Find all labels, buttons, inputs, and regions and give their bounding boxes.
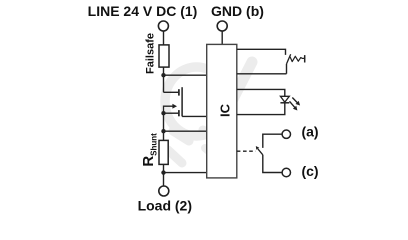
svg-text:RShunt: RShunt — [140, 133, 159, 167]
contact K1 blade — [256, 146, 263, 155]
node A junction dot — [161, 73, 165, 77]
LED D1 cathode bar — [280, 102, 289, 104]
switch S1 thermal squiggle — [290, 56, 304, 61]
svg-text:Failsafe: Failsafe — [145, 33, 157, 74]
transistor Q1 drain plate — [178, 89, 180, 95]
wire bottom node to Load terminal — [163, 173, 165, 186]
wire node A down to drain — [163, 75, 165, 92]
wire switch bottom to IC pin — [237, 64, 287, 74]
switch S1 blade — [287, 54, 291, 64]
wire fuse to node A — [163, 67, 165, 75]
wire gate lead to IC — [182, 115, 207, 117]
wire LINE terminal to fuse — [163, 31, 165, 45]
node shunt-top junction dot — [161, 129, 165, 133]
terminal LINE (1) — [158, 21, 168, 31]
terminal c — [282, 168, 290, 176]
fuse Failsafe — [159, 45, 169, 67]
transistor Q1 gate line — [181, 87, 183, 116]
wire resistor to bottom node — [163, 164, 165, 172]
svg-text:(c): (c) — [301, 163, 318, 179]
node shunt-bottom junction dot — [161, 170, 165, 174]
transistor Q1 body arrow — [164, 104, 178, 113]
wire GND terminal to IC — [221, 31, 223, 44]
LED D1 light arrow 1 — [292, 98, 300, 106]
watermark petal 1 — [173, 131, 189, 141]
wire drain lead — [164, 91, 179, 93]
wire shunt node to resistor — [163, 131, 165, 140]
wire IC pin to LED anode — [237, 89, 285, 96]
watermark petal 2 — [203, 130, 219, 142]
resistor Rshunt — [159, 140, 168, 164]
watermark petal 4 — [205, 148, 216, 157]
terminal GND (b) — [217, 21, 227, 31]
wire IC pin to switch top — [237, 49, 286, 55]
wire source lead — [164, 112, 179, 114]
switch S1 end bar — [304, 55, 306, 62]
node source junction dot — [161, 111, 165, 115]
svg-text:(a): (a) — [301, 124, 318, 140]
transistor Q1 source plate — [178, 110, 180, 116]
op-amp IC box — [207, 44, 237, 178]
terminal Load (2) — [159, 186, 169, 196]
wire source node down to shunt node — [163, 113, 165, 131]
wire contact bottom lead to terminal c — [263, 155, 282, 173]
wire bottom node to IC pin — [164, 172, 207, 174]
watermark ring — [165, 67, 228, 136]
wire contact top lead to terminal a — [263, 134, 282, 148]
svg-text:LINE 24 V DC (1): LINE 24 V DC (1) — [88, 3, 198, 19]
watermark diagonal — [233, 62, 252, 99]
wire shunt node to IC pin — [164, 130, 207, 132]
watermark petal 3 — [168, 150, 182, 163]
wire dashed actuation link from IC — [237, 150, 256, 152]
wire node A to IC pin — [164, 74, 207, 76]
svg-text:Load (2): Load (2) — [138, 198, 192, 214]
wire LED cathode to IC pin — [237, 103, 285, 115]
LED D1 light arrow 2 — [290, 101, 298, 110]
svg-text:GND (b): GND (b) — [211, 3, 264, 19]
LED D1 triangle — [280, 96, 289, 102]
svg-text:IC: IC — [218, 103, 233, 117]
terminal a — [282, 130, 290, 138]
